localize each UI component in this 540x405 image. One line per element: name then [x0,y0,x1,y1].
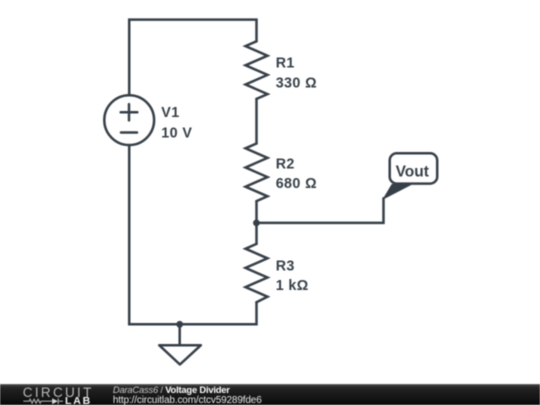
svg-text:LAB: LAB [65,394,92,405]
node junction dot (ground node) [176,321,183,328]
footer bar [0,384,540,405]
svg-text:R1: R1 [276,55,295,71]
ground [159,345,201,364]
wire between R1 and R2 [255,99,258,144]
resistor R3 [246,244,268,302]
voltage source V1 [104,95,154,145]
resistor R2 [246,144,268,202]
svg-text:DaraCass6 / Voltage Divider: DaraCass6 / Voltage Divider [113,384,230,395]
svg-text:10 V: 10 V [161,126,192,142]
wire ground stub [178,324,181,345]
wire between R2 and node A [255,201,258,244]
wire: left rail top, top wire, R1 top lead [129,20,256,96]
wire: R3 bottom lead, bottom wire, left rail bottom [129,145,256,324]
wire node A to Vout flag [257,198,384,223]
svg-text:680 Ω: 680 Ω [276,176,317,192]
logo resistor-diode squiggle [23,398,63,404]
resistor R1 [246,41,268,99]
svg-text:330 Ω: 330 Ω [276,75,317,91]
svg-text:R3: R3 [276,258,295,274]
svg-text:Vout: Vout [396,163,429,180]
svg-text:V1: V1 [161,105,179,121]
Vout flag balloon [384,153,438,199]
node junction dot (Vout node) [253,220,260,227]
svg-text:R2: R2 [276,156,295,172]
svg-text:1 kΩ: 1 kΩ [276,278,309,294]
svg-text:http://circuitlab.com/ctcv5928: http://circuitlab.com/ctcv59289fde6 [113,395,262,405]
